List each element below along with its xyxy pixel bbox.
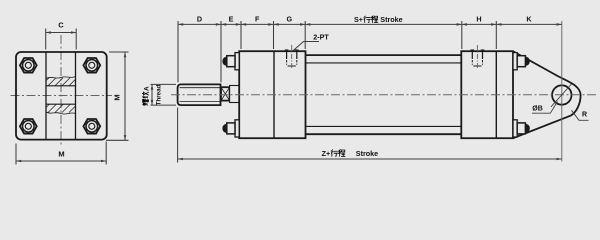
hatch upper band [41, 78, 77, 86]
2-PT label leader [293, 42, 319, 51]
rear head internal line [495, 51, 497, 138]
eye diagonal [551, 84, 572, 107]
front head block [239, 51, 305, 138]
tie rod bottom [306, 125, 462, 127]
thread label chinese (luo wen A) [142, 86, 150, 105]
tie rod nut rear bottom [513, 120, 517, 137]
cylinder tube outer bottom [306, 133, 462, 135]
svg-text:D: D [197, 15, 202, 24]
svg-text:M: M [113, 94, 122, 100]
svg-text:C: C [58, 21, 64, 30]
svg-text:K: K [526, 15, 532, 24]
rod wrench flat square [221, 87, 230, 100]
main centerline [171, 94, 597, 96]
port front centerline [291, 45, 293, 69]
svg-text:R: R [582, 111, 587, 118]
rod thread diameter dimension line [151, 84, 153, 105]
tie rod nut rear top [513, 53, 517, 70]
hex nut bottom-right [83, 119, 100, 134]
wrench flat diagonals [221, 87, 230, 100]
R leader [572, 110, 589, 120]
pin hole upper edge [46, 85, 76, 87]
svg-text:H: H [476, 15, 481, 24]
clevis eye hole [552, 85, 571, 104]
rod collar [230, 86, 240, 103]
tie rod nut front top [235, 53, 239, 70]
svg-text:Thread: Thread [156, 84, 163, 105]
cylinder tube outer top [306, 54, 462, 56]
tie rod top [306, 62, 462, 64]
mounting plate (rear flange) [16, 52, 107, 140]
break line upper (wavy) [46, 77, 76, 79]
clevis column left edge [45, 52, 47, 140]
hatch lower band [41, 104, 78, 113]
dimension M (bottom) line [16, 160, 106, 162]
tie rod nut front bottom [235, 120, 239, 137]
clevis bracket profile [514, 52, 581, 139]
centerline vertical (left view) [60, 35, 62, 145]
svg-text:ØB: ØB [532, 106, 543, 113]
thread minor diameter lines [180, 87, 221, 89]
svg-text:Stroke: Stroke [356, 149, 378, 158]
dimension C extension lines [45, 29, 47, 50]
svg-text:Z+: Z+ [322, 149, 331, 158]
svg-text:M: M [58, 150, 64, 159]
phi-B leader [532, 102, 558, 114]
dimension M (bottom) extension lines [15, 144, 17, 165]
svg-text:G: G [287, 15, 293, 24]
svg-text:F: F [255, 15, 260, 24]
dimension M (right) extension lines [109, 51, 129, 53]
hex nut bottom-left [20, 119, 37, 134]
bottom dimension Z extension line left [177, 108, 179, 163]
hex nut top-left [20, 58, 37, 73]
top dimension chain line [178, 23, 562, 25]
rod thread diameter extension lines [151, 83, 177, 85]
dimension C line [46, 32, 76, 34]
break line lower (wavy) [46, 112, 76, 114]
rear head block [461, 51, 513, 138]
hex nut top-right [83, 58, 100, 73]
clevis column right edge [75, 52, 77, 140]
top dimension chain extension lines [177, 21, 179, 82]
piston rod thread [178, 84, 221, 105]
svg-text:A: A [143, 86, 150, 91]
centerline horizontal (left view) [11, 95, 113, 97]
port rear centerline [476, 45, 478, 69]
port 2-PT rear [471, 50, 473, 60]
bottom dimension Z line [178, 158, 562, 160]
port 2-PT front [286, 50, 288, 60]
eye vertical centerline [561, 21, 563, 162]
front head internal line [273, 51, 275, 138]
svg-text:E: E [229, 15, 234, 24]
dimension M (right) line [124, 52, 126, 140]
svg-text:S+: S+ [354, 15, 363, 24]
pin hole lower edge [46, 103, 76, 105]
svg-text:2-PT: 2-PT [313, 33, 329, 42]
svg-text:Stroke: Stroke [380, 15, 402, 24]
